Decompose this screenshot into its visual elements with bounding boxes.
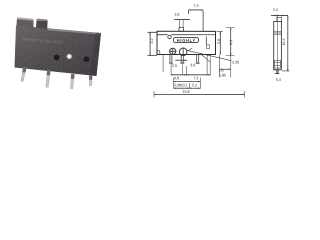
svg-text:5,08±0,1: 5,08±0,1 <box>174 83 187 87</box>
svg-text:2,35: 2,35 <box>232 60 239 64</box>
svg-text:6,4: 6,4 <box>276 78 281 82</box>
svg-text:1,85: 1,85 <box>219 73 226 77</box>
svg-text:16,2: 16,2 <box>282 39 286 46</box>
svg-text:3,9: 3,9 <box>190 63 195 67</box>
svg-text:6,8: 6,8 <box>174 76 179 80</box>
svg-text:5,8: 5,8 <box>217 39 221 44</box>
svg-text:2,8: 2,8 <box>174 13 179 17</box>
svg-text:6,5: 6,5 <box>229 40 233 45</box>
svg-text:2,5: 2,5 <box>172 64 177 68</box>
svg-text:3,2: 3,2 <box>150 38 154 43</box>
svg-text:7,3: 7,3 <box>193 76 198 80</box>
svg-text:7,3: 7,3 <box>194 4 199 8</box>
svg-text:2,4: 2,4 <box>273 8 278 12</box>
svg-text:5,2: 5,2 <box>192 83 197 87</box>
svg-text:1,6: 1,6 <box>218 69 223 73</box>
svg-text:HIGHLY: HIGHLY <box>177 38 196 43</box>
svg-text:15,8: 15,8 <box>182 90 189 94</box>
